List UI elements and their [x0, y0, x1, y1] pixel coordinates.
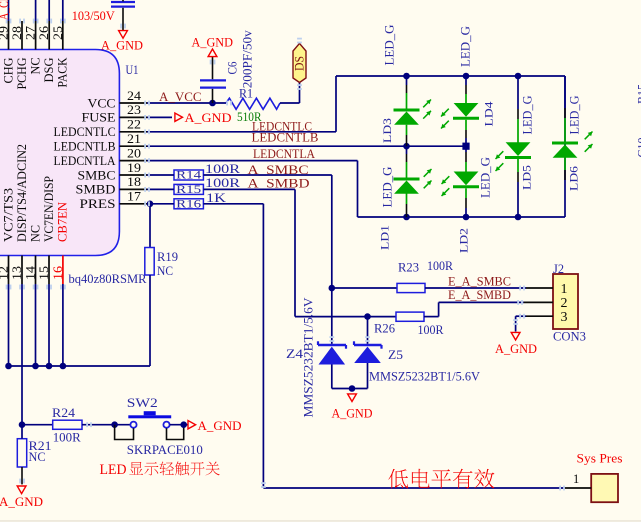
svg-text:LD3: LD3 [382, 118, 394, 143]
wire LD6 right column [564, 76, 566, 217]
svg-text:Z5: Z5 [388, 347, 403, 362]
svg-text:LD4: LD4 [484, 101, 496, 126]
svg-text:A_GND: A_GND [101, 37, 143, 52]
svg-text:25: 25 [51, 26, 65, 40]
junction bus pin15 [46, 363, 53, 370]
svg-text:A_VCC: A_VCC [159, 89, 202, 104]
svg-text:A_SMBD: A_SMBD [248, 176, 310, 191]
wire C6 lower lead [212, 89, 214, 103]
junction SW2 left [111, 421, 118, 428]
svg-text:R24: R24 [52, 405, 76, 420]
svg-text:DISP/TS4/ADCIN2: DISP/TS4/ADCIN2 [15, 144, 29, 242]
svg-text:DS: DS [293, 56, 307, 71]
svg-text:LEDCNTLA: LEDCNTLA [253, 146, 316, 161]
svg-text:SMBD: SMBD [76, 183, 116, 197]
svg-text:MMSZ5232BT1/5.6V: MMSZ5232BT1/5.6V [302, 298, 316, 418]
svg-text:VCC: VCC [88, 96, 116, 110]
wire Z4 cathode up [331, 288, 333, 344]
junction bottom rail LD5 [515, 214, 522, 221]
junction bus pin12 [5, 363, 12, 370]
junction A_SMBC/R23/Z4 [329, 285, 336, 292]
junction pin13/R24/R21 [19, 421, 26, 428]
resistor R16 box [174, 199, 203, 209]
svg-text:LD2: LD2 [459, 228, 471, 253]
svg-text:1K: 1K [206, 190, 227, 205]
switch SW2 actuator bar [128, 415, 171, 418]
wire SW2 right to A_GND [170, 424, 188, 426]
junction mid rail LD3 [403, 143, 410, 150]
wire R23 to J2 pin1 [425, 287, 526, 289]
svg-text:DSG: DSG [42, 58, 56, 83]
svg-text:LD6: LD6 [569, 166, 581, 191]
power port A_GND arrow (pin23) [175, 113, 183, 121]
power port A_GND arrow (zeners) [348, 394, 357, 402]
junction top rail LD4 [463, 73, 470, 80]
svg-text:NC: NC [157, 263, 173, 278]
switch SW2 left terminal bracket [115, 425, 134, 440]
svg-text:24: 24 [127, 89, 142, 103]
resistor R21 box [17, 439, 26, 467]
junction top rail LD5 [515, 73, 522, 80]
junction bottom rail LD2 [463, 214, 470, 221]
junction bus pin14 [32, 363, 39, 370]
svg-text:R15: R15 [176, 184, 201, 196]
junction Z5/A_SMBD [364, 313, 371, 320]
wire cap top stub [122, 0, 124, 1]
wire LD6 column upper [564, 76, 566, 108]
wire net A_SMBC [203, 174, 331, 176]
svg-text:C6: C6 [225, 61, 240, 74]
svg-text:LEDCNTLB: LEDCNTLB [54, 140, 116, 154]
wire LED top rail [336, 75, 565, 77]
pin 22 stub (right) [119, 131, 147, 133]
wire LEDCNTLA [147, 160, 358, 162]
svg-text:15: 15 [37, 266, 51, 280]
pin 13 stub (bottom) [21, 256, 23, 285]
op-amp U1 body (bq40z80RSMR IC box) [0, 50, 119, 256]
pin 20 stub (right) [119, 160, 147, 162]
svg-text:100R: 100R [418, 322, 444, 337]
LED LD5 body [506, 142, 531, 156]
svg-text:17: 17 [127, 190, 141, 204]
wire junction to R24 [22, 424, 53, 426]
svg-text:A_GND: A_GND [192, 35, 234, 50]
svg-text:VC7/TS3: VC7/TS3 [1, 188, 15, 242]
svg-text:21: 21 [127, 132, 141, 146]
J2 pin 3 stub [526, 315, 553, 317]
svg-text:LED: LED [100, 462, 127, 478]
wire pin14 down [35, 284, 37, 366]
wire pin16 down [62, 284, 64, 366]
wire LD4 column lower [465, 120, 467, 130]
resistor R24 box [53, 420, 82, 429]
svg-text:SKRPACE010: SKRPACE010 [127, 442, 203, 457]
wire LD1 column upper [406, 146, 408, 154]
svg-text:U1: U1 [126, 62, 139, 77]
svg-text:LED_G: LED_G [459, 26, 473, 67]
svg-text:PCHG: PCHG [15, 58, 29, 90]
junction bottom rail LD1 [403, 214, 410, 221]
resistor R26 box [396, 312, 424, 321]
wire pin18 to R15 [147, 188, 174, 190]
J2 pin 2 stub [524, 301, 553, 303]
wire LEDCNTLC [147, 131, 336, 133]
svg-text:SW2: SW2 [127, 395, 158, 410]
wire LD2 column lower [465, 188, 467, 198]
J2 pin 1 stub [526, 287, 553, 289]
svg-text:A_GND: A_GND [185, 110, 232, 125]
junction top rail LD3 [403, 73, 410, 80]
label active-low (Chinese) [388, 469, 408, 488]
svg-text:LED_G: LED_G [381, 167, 395, 208]
svg-text:27: 27 [24, 26, 38, 40]
LED LD1 body [394, 178, 420, 181]
svg-text:PRES: PRES [80, 197, 116, 211]
pin 14 stub (bottom) [35, 256, 37, 285]
svg-text:C10: C10 [635, 137, 641, 157]
zener diode Z4 body [318, 344, 346, 347]
power port A_GND arrow (SW2) [188, 421, 196, 429]
wire R21 to ground [21, 467, 23, 484]
pin 28 stub (top) [21, 21, 23, 50]
svg-text:LED_G: LED_G [521, 96, 535, 135]
bottom window edge [0, 520, 641, 521]
svg-text:NC: NC [29, 449, 46, 464]
svg-text:18: 18 [127, 175, 141, 189]
svg-text:CHG: CHG [1, 58, 15, 84]
wire A_SMBC junction to R23 [332, 287, 397, 289]
svg-text:CB7EN: CB7EN [56, 202, 70, 242]
zener diode Z5 body [354, 344, 382, 347]
svg-text:100R: 100R [427, 258, 453, 273]
svg-text:28: 28 [10, 26, 24, 40]
wire cap to ground arrow [122, 8, 124, 31]
svg-text:100R: 100R [205, 175, 240, 190]
svg-text:12: 12 [0, 266, 11, 280]
svg-text:bq40z80RSMR: bq40z80RSMR [69, 271, 147, 286]
connector J2 box [553, 274, 578, 329]
svg-text:100R: 100R [205, 161, 240, 176]
wire LD1 column lower [406, 194, 408, 205]
wire LED bottom rail [358, 216, 566, 218]
wire pin17 to R16 [147, 203, 174, 205]
pin 15 stub (bottom) [48, 256, 50, 285]
LED LD1 emission arrows [424, 169, 432, 177]
svg-text:16: 16 [51, 266, 65, 280]
junction on A_VCC at C6 [209, 100, 216, 107]
svg-text:1: 1 [561, 282, 568, 297]
LED LD4 body [454, 103, 479, 117]
LED LD6 body [552, 142, 578, 145]
pin 12 stub (bottom) [8, 256, 10, 285]
capacitor C2 plates (103/50V) [111, 1, 135, 3]
pin 24 stub (right) [119, 102, 147, 104]
svg-text:3: 3 [561, 310, 568, 325]
svg-text:PACK: PACK [56, 58, 70, 88]
power port A_GND arrow (R21) [17, 486, 26, 494]
resistor R1 zigzag [226, 98, 280, 109]
svg-text:1: 1 [573, 472, 579, 486]
pin 23 stub (right) [119, 116, 147, 118]
svg-text:A_GND: A_GND [0, 494, 43, 509]
power port A_GND arrow (top) [119, 31, 128, 39]
pin 18 stub (right) [119, 188, 147, 190]
svg-text:22: 22 [127, 118, 141, 132]
pin 21 stub (right) [119, 145, 147, 147]
grid marks (wire endpoints) [6, 19, 8, 24]
svg-text:100R: 100R [53, 429, 81, 444]
svg-text:A_GND: A_GND [495, 341, 537, 356]
wire pin 23 FUSE [147, 116, 172, 118]
svg-text:A_GND: A_GND [332, 406, 373, 421]
pin 19 stub (right) [119, 174, 147, 176]
svg-text:103/50V: 103/50V [72, 8, 116, 23]
svg-text:14: 14 [24, 265, 38, 280]
svg-text:LED_G: LED_G [382, 25, 396, 66]
svg-text:NC: NC [28, 58, 42, 75]
svg-text:LED_G: LED_G [479, 157, 493, 198]
svg-text:J2: J2 [553, 261, 564, 276]
pin 27 stub (top) [35, 21, 37, 50]
svg-text:R15: R15 [635, 84, 641, 104]
svg-text:200PF/50v: 200PF/50v [240, 30, 255, 89]
pin 29 stub (top) [8, 21, 10, 50]
svg-text:MMSZ5232BT1/5.6V: MMSZ5232BT1/5.6V [369, 368, 481, 383]
svg-text:29: 29 [0, 26, 11, 40]
svg-text:13: 13 [10, 266, 24, 280]
Sys Pres pin stub [564, 487, 591, 489]
svg-text:23: 23 [127, 103, 141, 117]
power port A_GND arrow (J2) [511, 332, 520, 340]
junction pin17/R19 [147, 201, 154, 208]
LED LD3 emission arrows [423, 100, 431, 108]
svg-text:LED_G: LED_G [568, 96, 582, 135]
pin 25 stub (top) [62, 21, 64, 50]
svg-text:R23: R23 [398, 259, 419, 274]
wire J2 pin3 to ground [516, 315, 526, 317]
resistor R23 box [397, 283, 425, 292]
switch SW2 right terminal bracket [167, 425, 184, 440]
svg-text:19: 19 [127, 161, 141, 175]
LED LD6 emission arrows [585, 132, 593, 140]
wire junction to R21 [21, 425, 23, 439]
junction zener ground [349, 385, 356, 392]
pin 16 stub (bottom) [62, 256, 64, 285]
pin 17 stub (right) [119, 203, 147, 205]
connector Sys Pres box [591, 474, 618, 502]
svg-text:A_CH: A_CH [0, 0, 11, 20]
wire LD2 column upper [465, 146, 467, 152]
svg-text:SMBC: SMBC [78, 168, 116, 182]
wire bottom bus [9, 365, 151, 367]
svg-text:20: 20 [127, 146, 141, 160]
wire Z5 cathode up [367, 317, 369, 344]
svg-text:LD5: LD5 [522, 165, 534, 190]
LED LD5 emission arrows [496, 151, 504, 159]
switch SW2 contacts [130, 422, 136, 428]
wire LEDCNTLB (middle rail) [147, 145, 466, 147]
wire R1 to DS [280, 102, 300, 104]
LED LD2 emission arrows [442, 176, 450, 184]
jumper DS body [293, 43, 306, 82]
svg-text:A_GND: A_GND [198, 418, 242, 433]
wire pin19 to R14 [147, 174, 174, 176]
junction mid rail LD4 (square) [462, 143, 469, 150]
LED LD4 emission arrows [441, 109, 449, 117]
wire LD3 column upper [406, 76, 408, 85]
svg-text:LEDCNTLA: LEDCNTLA [54, 154, 116, 168]
svg-text:LEDCNTLC: LEDCNTLC [54, 125, 116, 139]
wire R26 to J2 pin2 [424, 316, 439, 318]
wire LD4 column upper [465, 76, 467, 85]
junction bus pin16 [60, 363, 67, 370]
wire LD6 column lower [564, 157, 566, 170]
power port A_GND arrow (C6) [208, 49, 217, 57]
wire R24 to SW2 [82, 424, 131, 426]
wire net A_SMBD [203, 188, 295, 190]
LED LD2 body [454, 172, 479, 186]
svg-text:26: 26 [37, 26, 51, 40]
wire net A_CHG (top pins) [8, 0, 10, 21]
resistor R19 box [145, 248, 154, 276]
svg-text:CON3: CON3 [553, 328, 586, 343]
resistor R15 box [174, 184, 203, 194]
svg-text:R26: R26 [374, 320, 395, 335]
svg-text:FUSE: FUSE [82, 111, 116, 125]
wire LD3 column lower [406, 125, 408, 135]
svg-text:R16: R16 [176, 198, 201, 210]
wire LD5 column upper [517, 76, 519, 109]
wire pin13 down to switch net [21, 284, 23, 425]
capacitor C6 plates [200, 79, 226, 81]
svg-text:NC: NC [28, 225, 42, 242]
wire zener anodes to ground [331, 365, 333, 389]
LED LD3 body [394, 109, 420, 112]
svg-text:R14: R14 [176, 170, 201, 182]
wire pin15 down [48, 284, 50, 366]
wire pin17 junction down to R19 [149, 204, 151, 248]
svg-text:LEDCNTLB: LEDCNTLB [252, 130, 319, 145]
svg-text:E_A_SMBD: E_A_SMBD [448, 287, 511, 302]
wire net PRES/1K to Sys Pres [203, 203, 263, 205]
wire A_VCC from pin 24 [147, 102, 226, 104]
wire C6 upper lead [212, 57, 214, 79]
junction SW2 right [180, 421, 187, 428]
svg-text:LD1: LD1 [380, 225, 392, 250]
svg-text:Sys Pres: Sys Pres [577, 451, 623, 465]
wire R19 to bottom bus [149, 275, 151, 366]
pin 26 stub (top) [48, 21, 50, 50]
svg-text:VC7EN/DISP: VC7EN/DISP [42, 176, 56, 242]
resistor R14 box [174, 170, 203, 180]
svg-text:2: 2 [561, 296, 568, 311]
wire pin12 down [8, 284, 10, 366]
wire LD5 column lower [517, 159, 519, 172]
